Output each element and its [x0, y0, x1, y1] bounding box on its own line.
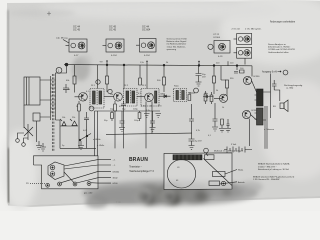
capacitor C7 — [150, 111, 155, 127]
svg-text:5k: 5k — [166, 62, 168, 64]
low rail segment — [106, 133, 192, 134]
node dot G — [236, 65, 238, 67]
variable capacitor C1 — [56, 67, 62, 73]
capacitor C6 — [120, 111, 125, 127]
node dot A — [65, 63, 68, 66]
resistor R7 — [213, 66, 216, 95]
dial cord box — [34, 156, 99, 189]
page number note — [116, 201, 121, 204]
drive part — [209, 181, 220, 186]
svg-text:Antrieb: Antrieb — [238, 181, 245, 184]
coupling cap C10 — [213, 103, 218, 127]
speaker circle on chassis — [167, 160, 195, 188]
svg-text:Taschenempfänger T 3: Taschenempfänger T 3 — [129, 170, 154, 173]
svg-text:4-134: 4-134 — [111, 55, 117, 57]
svg-text:OT 22: OT 22 — [213, 34, 220, 36]
wave switch S2 — [80, 134, 91, 141]
wire IFT2 to Q3 — [137, 96, 145, 98]
svg-text:0/300: 0/300 — [113, 183, 119, 185]
volume pot R11 — [60, 119, 78, 126]
wire pair down to dial box — [95, 111, 103, 156]
audio rail — [102, 110, 160, 112]
transistor case drawing Q1 — [66, 39, 88, 57]
resistor R5 — [157, 65, 166, 92]
ferrite rod bar — [173, 155, 202, 160]
ground symbol — [119, 128, 125, 132]
ground symbol C4 — [196, 82, 202, 86]
BRAUN logo — [129, 157, 154, 173]
svg-text:Betriebszeit je Ladung ca. 30: Betriebszeit je Ladung ca. 30 Std — [258, 168, 289, 171]
speaker LS1 — [273, 100, 288, 112]
svg-text:ca. 80Ω: ca. 80Ω — [286, 88, 294, 90]
svg-text:Maßstab 1:1: Maßstab 1:1 — [214, 150, 226, 153]
transistor Q5 circle — [243, 76, 251, 84]
ratio detector transformer dashed box — [174, 89, 187, 102]
svg-text:BRAUN: BRAUN — [129, 157, 148, 163]
svg-text:8k: 8k — [188, 93, 190, 95]
svg-text:Skala: Skala — [238, 170, 244, 172]
svg-text:5μ: 5μ — [62, 145, 64, 147]
dial box interior shade — [34, 156, 99, 189]
battery B1 — [224, 143, 252, 153]
top supply rail — [64, 65, 252, 66]
svg-text:Transistor −: Transistor − — [129, 165, 142, 168]
misc wire top left fold mark — [47, 12, 51, 16]
label 2xOC380 — [232, 29, 262, 31]
trafo box on chassis — [205, 155, 215, 160]
svg-text:0/300Ω: 0/300Ω — [113, 171, 120, 173]
svg-text:beforderado m. Röhlte:: beforderado m. Röhlte: — [268, 46, 291, 49]
callout circle 5 — [89, 106, 94, 111]
frame antenna L1 — [24, 77, 40, 121]
ground symbol — [150, 128, 156, 132]
capacitor C2 — [63, 84, 69, 93]
svg-text:Änderungen vorbehalten: Änderungen vorbehalten — [270, 21, 296, 24]
svg-text:2/1250 − RM 4 TR −: 2/1250 − RM 4 TR − — [258, 166, 278, 168]
driver resistors Q6 — [221, 119, 230, 129]
measurement stub node 4 — [227, 61, 229, 65]
ground symbol bus left — [36, 141, 42, 150]
right note block — [268, 43, 296, 54]
ground symbol — [189, 146, 195, 150]
electrolytic C8 — [189, 139, 195, 146]
svg-text:OC 45: OC 45 — [109, 29, 117, 32]
electrolytic C4 — [196, 65, 207, 82]
chassis callouts — [220, 170, 238, 185]
wire antenna to transformer — [40, 80, 50, 117]
svg-text:Ausgang 6 mV: Ausgang 6 mV — [262, 70, 278, 73]
cord lines — [61, 160, 98, 184]
dial scale part — [213, 172, 226, 177]
node dot E — [198, 65, 200, 67]
transistor Q4 circle — [214, 94, 228, 102]
svg-text:1,5k: 1,5k — [140, 62, 144, 64]
wires output to speaker — [263, 74, 271, 121]
band switch S1 — [24, 124, 33, 140]
callout circle 2 — [96, 80, 100, 84]
svg-text:1 RF-Vormess/W − MHz/BW: 1 RF-Vormess/W − MHz/BW — [253, 178, 279, 181]
node dot C — [123, 64, 125, 66]
svg-text:25k: 25k — [72, 117, 75, 119]
svg-text:4-19: 4-19 — [218, 56, 223, 58]
transistor case T1 label — [73, 26, 151, 32]
emitter network Q2 — [114, 101, 126, 149]
svg-text:9 Volt: 9 Volt — [231, 143, 237, 146]
measurement stub node 2 — [146, 61, 147, 65]
antenna wiring — [18, 105, 37, 143]
svg-text:federnd gelagert: federnd gelagert — [228, 150, 244, 153]
IF transformer IFT1 dashed box — [90, 65, 104, 108]
chassis outline — [164, 153, 232, 190]
svg-text:1 Ω je Skt. Batterie-: 1 Ω je Skt. Batterie- — [167, 45, 186, 48]
transistor case drawing Q5 — [234, 34, 252, 45]
resistor R8 — [226, 80, 229, 96]
svg-text:OC380: OC380 — [253, 76, 260, 78]
resistor R6 — [188, 92, 195, 101]
resistor R4 — [139, 65, 142, 85]
transistor Q3 circle — [145, 93, 154, 102]
transistor case drawing Q6 — [234, 47, 252, 64]
bypass cap C3 — [84, 112, 89, 148]
ground bus — [60, 147, 96, 149]
svg-text:1k: 1k — [76, 106, 78, 108]
terminal leads — [98, 160, 111, 184]
svg-text:1k: 1k — [222, 107, 224, 109]
coupling transformer T1 windings — [51, 74, 56, 152]
rail labels — [110, 106, 162, 111]
ground symbol — [156, 114, 162, 118]
idler pulleys — [46, 183, 50, 187]
emitter resistor R2 — [78, 101, 81, 148]
callout circle 9 — [204, 148, 209, 153]
svg-text:100μ: 100μ — [134, 120, 139, 122]
wire rail right end down — [251, 66, 253, 77]
svg-text:2 OC 04: 2 OC 04 — [232, 29, 241, 31]
fold smudge top left — [8, 9, 76, 17]
svg-text:a. Volumen: a. Volumen — [264, 129, 274, 131]
ground symbol — [219, 129, 225, 133]
transistor case drawing Q4 — [208, 34, 230, 58]
svg-text:5μ 15V: 5μ 15V — [195, 141, 202, 143]
svg-text:4,7k: 4,7k — [196, 130, 200, 132]
svg-text:4-17: 4-17 — [74, 55, 79, 57]
ground symbol left — [40, 143, 46, 151]
page edge line left — [8, 10, 9, 203]
svg-text:8Ω: 8Ω — [273, 106, 276, 108]
transistor Q1 circle — [75, 93, 88, 102]
emitter network Q3 — [146, 102, 152, 149]
svg-text:Gemessen bei 9 Volt: Gemessen bei 9 Volt — [167, 38, 188, 41]
svg-text:a. Welle: a. Welle — [97, 145, 105, 147]
antenna jack J1 — [16, 139, 20, 143]
cord drive pulley plate — [48, 162, 64, 180]
stain smudge — [72, 57, 90, 81]
transistor case drawing Q3 — [136, 39, 156, 58]
bottom small note — [84, 193, 93, 195]
driver stage wires — [221, 66, 237, 80]
ground symbol bus right — [78, 141, 84, 150]
callout circle 4 — [194, 88, 199, 93]
detector diode D1 — [159, 95, 171, 98]
svg-text:OA70: OA70 — [160, 93, 166, 96]
IF transformer IFT2 dashed box — [124, 65, 138, 106]
AF coupling parts — [203, 95, 214, 98]
knob circle — [221, 181, 225, 185]
svg-text:a. Welle: a. Welle — [93, 139, 101, 141]
lab note text — [56, 38, 68, 40]
node dot B — [106, 64, 108, 66]
wire transformer top to rail — [56, 65, 67, 76]
coupling cap C9 — [189, 104, 194, 133]
svg-text:0,1μ: 0,1μ — [204, 93, 208, 95]
svg-text:100μ: 100μ — [133, 109, 138, 111]
svg-text:2,2k: 2,2k — [146, 110, 150, 112]
ground symbol — [144, 114, 150, 118]
charger note block — [253, 175, 295, 181]
IF transformer IFT3 dashed box — [141, 65, 159, 106]
note aenderungen vorbehalten — [270, 21, 296, 24]
node dot F — [213, 65, 215, 67]
callout circle 7 — [283, 70, 288, 75]
measurement stub node 3 — [198, 61, 199, 65]
interstage parts row — [234, 70, 244, 73]
measurement note block — [167, 38, 188, 51]
ground symbol C10 — [212, 127, 218, 131]
svg-text:50μ: 50μ — [104, 120, 107, 122]
callout circle 1 — [58, 70, 60, 72]
ground symbol — [225, 129, 231, 133]
svg-text:2 OC 380 symm.: 2 OC 380 symm. — [245, 29, 262, 31]
detector load resistors — [204, 91, 213, 104]
battery note block — [258, 163, 290, 172]
resistor R9 — [111, 111, 114, 121]
callout circle 3 — [108, 89, 112, 93]
PU label — [26, 183, 29, 185]
svg-text:4-134: 4-134 — [144, 55, 150, 57]
measurement stub node 1 — [106, 61, 107, 65]
svg-text:5k: 5k — [216, 90, 218, 92]
svg-text:gez. 4.60: gez. 4.60 — [84, 193, 93, 195]
svg-text:10k: 10k — [62, 117, 65, 119]
feedback capacitor C5 — [272, 80, 280, 101]
svg-text:T 41: T 41 — [116, 201, 121, 204]
svg-text:Lab. Messg.: Lab. Messg. — [56, 38, 68, 40]
ground jack J2 — [22, 143, 26, 147]
scale note above chassis — [214, 150, 244, 153]
chassis interior shade — [164, 153, 232, 190]
output label — [262, 70, 278, 73]
svg-text:BRAUN Nachlade-Batterie KA-RA: BRAUN Nachlade-Batterie KA-RA — [258, 163, 290, 166]
wires to battery — [250, 106, 268, 149]
transistor Q6 circle — [242, 110, 250, 118]
transistor case drawing Q2 — [103, 39, 125, 57]
feedback label — [284, 85, 303, 90]
wire — [56, 120, 61, 148]
svg-text:OC304: OC304 — [213, 37, 221, 39]
svg-text:OC 45: OC 45 — [73, 29, 81, 32]
resistor R3 — [106, 65, 109, 92]
svg-text:10k: 10k — [110, 94, 113, 96]
resistor R1 — [66, 65, 76, 93]
wire IFT1 to Q2 — [104, 96, 114, 98]
transistor Q2 circle — [114, 93, 123, 102]
svg-text:spannung: spannung — [167, 49, 177, 51]
resistor R10 — [138, 111, 141, 121]
svg-text:2k: 2k — [68, 89, 70, 91]
svg-text:OC 604: OC 604 — [142, 29, 151, 32]
value labels texture — [62, 62, 274, 148]
output transformer T2 — [251, 81, 264, 126]
svg-text:BRAUN Quickzeit KA5 Pb-gleichz: BRAUN Quickzeit KA5 Pb-gleichzeit-zeitlu… — [253, 175, 295, 178]
svg-text:mit Röhrenvoltmeter: mit Röhrenvoltmeter — [167, 43, 187, 46]
svg-text:Gehäusedeckel offen: Gehäusedeckel offen — [268, 52, 289, 54]
svg-text:Batterie ohne Signal: Batterie ohne Signal — [167, 40, 187, 43]
node dot D — [163, 64, 165, 66]
svg-text:Dieses Analyse zu: Dieses Analyse zu — [268, 43, 287, 46]
photo blur bottom — [82, 180, 263, 208]
svg-text:OC380: OC380 — [251, 110, 258, 112]
svg-text:15V: 15V — [202, 77, 206, 79]
chassis diagonal brace — [204, 159, 233, 186]
svg-text:300Ω: 300Ω — [113, 178, 118, 180]
